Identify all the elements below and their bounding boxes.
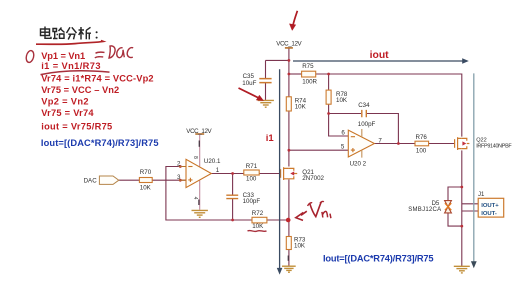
svg-text:VCC_12V: VCC_12V <box>276 40 302 47</box>
svg-text:VCC_12V: VCC_12V <box>186 128 212 135</box>
svg-text:i1 = Vn1/R73: i1 = Vn1/R73 <box>41 61 100 71</box>
capacitor C34 <box>358 102 376 128</box>
junction C33 to feedback wire <box>231 219 234 222</box>
port DAC <box>84 176 119 184</box>
svg-text:Vp1 = Vn1: Vp1 = Vn1 <box>41 51 85 61</box>
svg-text:SMBJ12CA: SMBJ12CA <box>408 207 441 213</box>
svg-text:J1: J1 <box>478 192 485 198</box>
wire U20.2 output to R76 <box>374 143 415 145</box>
resistor R71 <box>244 163 259 182</box>
R73 pin designator dash <box>287 256 289 261</box>
resistor R75 <box>302 63 318 85</box>
svg-text:1: 1 <box>216 167 220 174</box>
junction U20.2 output/C34 node <box>397 142 400 145</box>
wire pin5 from main vertical <box>289 149 348 151</box>
svg-text:Vp2 = Vn2: Vp2 = Vn2 <box>41 96 88 106</box>
svg-text:100pF: 100pF <box>243 198 261 205</box>
resistor R78 vertical <box>326 90 348 104</box>
junction D5 top node <box>460 186 463 189</box>
junction at U20.1 pin 3 <box>179 179 182 182</box>
svg-text:100pF: 100pF <box>358 121 376 128</box>
wire output pin1 to R71 <box>211 173 244 175</box>
svg-text:100: 100 <box>416 147 427 154</box>
handwritten red node dot <box>286 218 291 223</box>
current arrow iout (navy horizontal) <box>293 58 469 64</box>
wire R78 top <box>328 74 330 90</box>
wire C34 to output junction <box>367 114 398 144</box>
title 电路分析: hand-drawn strokes <box>41 27 98 40</box>
pin4 designator dash <box>198 200 200 206</box>
power port VCC_12V (main) <box>276 40 302 48</box>
svg-text:Vr74 = i1*R74 = VCC-Vp2: Vr74 = i1*R74 = VCC-Vp2 <box>41 74 153 84</box>
junction R78 top on R75 wire <box>327 73 330 76</box>
svg-text:10K: 10K <box>295 104 307 111</box>
handwritten arrow to VCC (top) <box>289 11 297 31</box>
svg-text:R71: R71 <box>246 163 258 170</box>
diode D5 SMBJ12CA <box>408 201 451 213</box>
svg-text:4: 4 <box>192 197 198 200</box>
svg-text:C34: C34 <box>358 102 370 109</box>
junction R75/R74 node <box>288 73 291 76</box>
junction output node U20.1 <box>231 172 234 175</box>
SCHEMATIC-WIRES <box>119 48 478 266</box>
junction R78/C34 node <box>327 112 330 115</box>
ground below U20.1 pin4 <box>192 181 208 218</box>
resistor R70 <box>139 169 152 191</box>
junction D5 bottom node <box>460 225 463 228</box>
svg-text:7: 7 <box>378 138 382 145</box>
svg-text:10K: 10K <box>294 242 306 249</box>
wire feedback pin2 left-down-right to node Vn1 <box>166 167 252 221</box>
handwritten oval mark <box>25 50 35 63</box>
handwritten approx-equals DAC <box>95 46 133 58</box>
wire R71 to Q21 gate <box>259 173 281 175</box>
wire R72 to node Vn1 <box>267 219 289 221</box>
ground below C35 <box>258 100 274 107</box>
svg-text:10K: 10K <box>140 184 152 191</box>
wire C33 branch <box>232 174 234 221</box>
op-amp U20.1 <box>177 156 221 200</box>
wire R70 to pin3 <box>152 179 186 181</box>
current path teal vertical <box>471 73 477 268</box>
wire VCC node to R75 <box>289 73 302 75</box>
resistor R74 vertical <box>286 97 306 111</box>
wire main vertical VCC to R74 <box>288 48 290 97</box>
svg-text:D5: D5 <box>432 201 440 207</box>
svg-text:i1: i1 <box>266 133 275 144</box>
capacitor C33 <box>226 192 260 205</box>
transistor Q22 IRFP9140NPBF <box>455 137 513 150</box>
title underline <box>36 41 103 45</box>
red formula lines <box>41 51 153 131</box>
svg-text:IOUT+: IOUT+ <box>481 203 499 209</box>
wire DAC to R70 <box>119 179 140 181</box>
svg-text:Iout=[(DAC*R74)/R73]/R75: Iout=[(DAC*R74)/R73]/R75 <box>41 138 159 148</box>
wire node to pin6 <box>329 114 349 137</box>
wire R75 to Q22 source corner <box>316 74 462 137</box>
transistor Q21 2N7002 <box>281 167 325 182</box>
svg-text:R72: R72 <box>252 210 264 217</box>
ground right (J1 return) <box>454 266 470 273</box>
junction C35 tap on VCC rail <box>288 59 291 62</box>
svg-text:3: 3 <box>177 174 181 181</box>
svg-text:2: 2 <box>177 160 181 167</box>
svg-text:Vr75 = VCC – Vn2: Vr75 = VCC – Vn2 <box>41 85 119 95</box>
svg-text:Vr75 = Vr74: Vr75 = Vr74 <box>41 108 94 118</box>
connector J1 <box>478 192 504 217</box>
svg-text:5: 5 <box>341 144 345 151</box>
svg-text:R75: R75 <box>302 63 314 70</box>
handwritten Vn1 annotation <box>296 201 331 220</box>
wire Q21 source down to Vn1 node to R73 <box>288 180 290 237</box>
resistor R76 <box>415 134 429 155</box>
svg-text:DAC: DAC <box>84 177 98 184</box>
wire Q22 drain down to ground <box>461 150 463 266</box>
svg-text:R70: R70 <box>140 169 152 176</box>
handwritten arrow to C35 ground <box>239 88 264 101</box>
wire R73 to ground <box>288 250 290 267</box>
svg-text:Iout=[(DAC*R74)/R73]/R75: Iout=[(DAC*R74)/R73]/R75 <box>323 254 434 264</box>
svg-text:C35: C35 <box>243 73 255 80</box>
wire C35 top branch <box>266 60 289 100</box>
resistor R73 vertical <box>286 236 306 249</box>
svg-text:R76: R76 <box>416 134 428 141</box>
wire R74 to pin5 node to Q21 drain <box>288 111 290 167</box>
current arrow i1 (navy vertical) <box>277 69 283 274</box>
junction pin5 tap node <box>288 149 291 152</box>
handwritten underline under i1 line <box>41 71 110 75</box>
svg-text:100R: 100R <box>302 78 317 85</box>
svg-text:10uF: 10uF <box>242 80 256 87</box>
resistor R72 <box>252 210 267 230</box>
svg-text:U20.1: U20.1 <box>204 158 221 165</box>
ground below R73 <box>282 266 296 272</box>
junction at U20.1 pin 2 <box>179 165 182 168</box>
power port VCC_12V (U20.1) <box>186 128 212 167</box>
svg-text:iout = Vr75/R75: iout = Vr75/R75 <box>41 121 112 131</box>
wire J1 pin1 stub <box>462 203 478 205</box>
svg-text:iout: iout <box>370 50 390 61</box>
svg-text:IOUT-: IOUT- <box>481 211 497 217</box>
op-amp U20.2 <box>341 129 383 167</box>
svg-text:IRFP9140NPBF: IRFP9140NPBF <box>476 143 512 149</box>
svg-text:8: 8 <box>192 156 198 159</box>
svg-text:10K: 10K <box>336 97 348 104</box>
wire D5 loop <box>448 187 462 226</box>
capacitor C35 <box>242 73 271 87</box>
wire R76 to Q22 gate <box>429 143 455 145</box>
svg-text:10K: 10K <box>252 223 264 230</box>
wire J1 pin2 stub <box>462 210 478 212</box>
svg-text:U20 2: U20 2 <box>350 160 367 167</box>
svg-text:6: 6 <box>341 130 345 137</box>
handwritten squiggle under R72 value <box>248 230 267 233</box>
wire R78 bottom to C34 node <box>329 104 361 113</box>
svg-text:2N7002: 2N7002 <box>302 175 324 182</box>
svg-text:100: 100 <box>246 175 257 182</box>
